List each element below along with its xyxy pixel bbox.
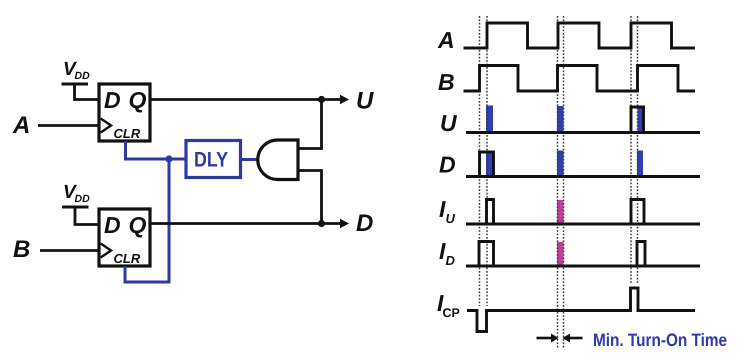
wire VDD to D input of top flip-flop xyxy=(75,84,100,100)
svg-text:D: D xyxy=(439,152,456,178)
svg-text:D: D xyxy=(356,210,373,237)
AND gate (mirrored, output to left) xyxy=(258,140,298,180)
wire DLY output to AND gate (blue) xyxy=(241,158,261,161)
wire gate top input from U line xyxy=(298,100,322,149)
reset wire (blue) from CLR of U1 to junction and DLY xyxy=(126,141,187,159)
svg-text:D: D xyxy=(104,212,121,238)
svg-text:U: U xyxy=(356,88,374,115)
blue pulse D event2 xyxy=(557,151,564,177)
I_D black pulse event1 xyxy=(479,242,494,267)
clock edge triangle U1 xyxy=(101,119,111,133)
output D line from Q of U2 xyxy=(150,222,342,225)
svg-text:CP: CP xyxy=(443,306,460,320)
svg-text:DLY: DLY xyxy=(194,149,228,172)
magenta pulse I_D event2 xyxy=(557,242,564,266)
dotted marker lines group 1 (B edge, A edge) xyxy=(479,16,481,306)
wire input A to clock of top flip-flop xyxy=(38,124,99,127)
I_U black pulse event3 xyxy=(631,200,644,225)
D flip-flop U1 (top) xyxy=(99,84,150,141)
svg-text:D: D xyxy=(446,253,456,268)
wire gate bottom input from D line xyxy=(298,171,322,224)
svg-text:DD: DD xyxy=(75,70,91,82)
reset wire (blue) trunk down and into CLR of U2 xyxy=(125,159,169,282)
dotted marker lines group 3 (A edge, B edge) xyxy=(630,16,632,284)
svg-text:A: A xyxy=(437,27,455,53)
blue junction node xyxy=(165,155,172,162)
svg-text:U: U xyxy=(446,211,456,226)
blue pulse U event2 xyxy=(557,106,564,133)
clock edge triangle U2 xyxy=(101,244,111,258)
svg-text:D: D xyxy=(104,87,121,113)
svg-text:Min. Turn-On Time: Min. Turn-On Time xyxy=(593,330,727,350)
waveform I_U baseline xyxy=(439,196,456,226)
svg-text:B: B xyxy=(438,69,455,95)
D flip-flop U2 (bottom) xyxy=(99,209,150,266)
wire VDD to D input of bottom flip-flop xyxy=(75,207,99,225)
VDD supply bar (bottom) xyxy=(62,206,89,209)
node on D line xyxy=(318,220,325,227)
I_D black pulse event3 xyxy=(637,242,645,267)
svg-text:A: A xyxy=(12,112,30,139)
svg-text:CLR: CLR xyxy=(114,251,141,266)
VDD supply bar (top) xyxy=(62,83,89,86)
I_U black pulse event1 xyxy=(487,200,494,225)
arrowhead D xyxy=(340,219,349,228)
magenta pulse I_U event2 xyxy=(557,200,564,224)
U black pulse event3 xyxy=(631,107,644,133)
dotted marker lines group 2 (aligned edges, reset) xyxy=(557,16,559,349)
svg-text:U: U xyxy=(440,110,458,136)
waveform I_CP xyxy=(437,290,460,320)
blue fill U event3 xyxy=(638,109,644,133)
waveform I_D baseline xyxy=(439,238,456,268)
output U line from Q of U1 xyxy=(150,98,342,101)
blue pulse D event3 xyxy=(637,151,643,177)
svg-text:CLR: CLR xyxy=(114,126,141,141)
blue fill D event1 xyxy=(486,154,493,177)
node on U line xyxy=(318,96,325,103)
min turn-on time arrows xyxy=(537,337,553,340)
blue pulse U event1 xyxy=(486,106,493,133)
delay block DLY xyxy=(186,141,241,178)
arrowhead U xyxy=(340,95,349,104)
svg-text:Q: Q xyxy=(129,212,147,238)
VDD label (bottom supply) xyxy=(63,182,90,205)
svg-text:DD: DD xyxy=(75,193,91,205)
svg-text:Q: Q xyxy=(129,87,147,113)
wire input B to clock of bottom flip-flop xyxy=(40,249,99,252)
VDD label (top supply) xyxy=(63,59,90,82)
svg-text:B: B xyxy=(13,236,30,263)
D black pulse event1 xyxy=(480,152,494,177)
